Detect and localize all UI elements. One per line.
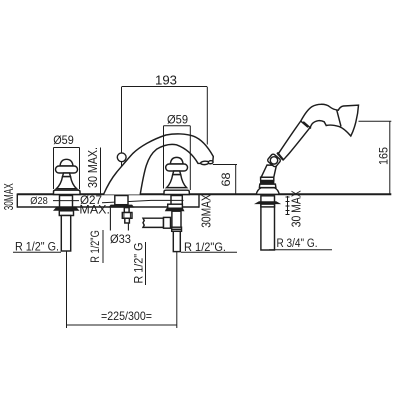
left handle knob [60, 159, 73, 166]
svg-text:30 MAX.: 30 MAX. [86, 147, 100, 188]
left valve shank [60, 196, 73, 208]
svg-text:193: 193 [155, 73, 177, 88]
svg-text:Ø33: Ø33 [110, 234, 131, 246]
spout hole tube sides [109, 206, 111, 231]
svg-text:165: 165 [377, 147, 391, 165]
elbow nut [267, 153, 281, 167]
left valve block [59, 211, 73, 216]
svg-text:68: 68 [219, 172, 233, 186]
165 dimension line [389, 121, 391, 194]
right valve hose [143, 218, 164, 227]
svg-text:R 1/2"G.: R 1/2"G. [184, 240, 226, 254]
deck top line [17, 193, 391, 195]
deck left edge [16, 194, 18, 208]
right handle stem [173, 171, 181, 175]
hand shower shank tube [261, 196, 275, 250]
=225/300= extension lines [66, 251, 68, 328]
underline R 1/2 G right [181, 251, 237, 253]
hand shower washer [261, 204, 275, 207]
right handle knob [170, 157, 183, 164]
left handle bell [56, 177, 76, 189]
right valve flange [168, 204, 183, 208]
svg-text:R 1/2" G: R 1/2" G [132, 243, 146, 284]
underline R 3/4 G [269, 249, 332, 251]
spout mounting bracket [108, 205, 134, 208]
hand shower handle and head [277, 104, 358, 160]
deck right-section edge [198, 195, 200, 208]
right valve body block [172, 211, 181, 228]
hand shower shoulder [259, 184, 276, 188]
Ø59 left extension lines [53, 148, 55, 190]
svg-text:Ø59: Ø59 [167, 112, 188, 126]
svg-text:R 1/2" G.: R 1/2" G. [15, 241, 59, 253]
hand shower dark collar [260, 181, 274, 185]
elbow swivel ball [270, 157, 277, 164]
underline vertical text 2 [145, 242, 147, 285]
right handle bell [167, 175, 187, 188]
head inner ring [337, 110, 341, 126]
=225/300= dimension line [67, 324, 178, 326]
left valve locknut [53, 207, 80, 210]
svg-text:R 3/4" G.: R 3/4" G. [277, 238, 318, 250]
left valve tail tube [61, 216, 70, 252]
svg-text:Ø28: Ø28 [30, 195, 48, 207]
left handle flange [54, 190, 81, 194]
right valve tail tube [173, 231, 180, 251]
right valve collar [172, 227, 182, 231]
68 extension line [213, 164, 237, 166]
hand shower holder cone [261, 165, 276, 177]
30 MAX left-mid underline [100, 148, 102, 194]
underline vertical text 1 [102, 230, 104, 263]
Ø59 right extension lines [163, 126, 165, 189]
svg-text:MAX.: MAX. [79, 204, 110, 216]
lift knob circle on spout [117, 153, 126, 162]
165 extension line [359, 120, 392, 122]
left handle bar [56, 166, 78, 173]
193 extension line right [206, 87, 208, 145]
handle separator lines [300, 121, 308, 128]
underline R 1/2 G left [13, 251, 61, 253]
hand shower locknut [254, 201, 281, 204]
deck bottom line [17, 206, 199, 208]
spout aerator [201, 161, 209, 165]
right handle flange [164, 190, 189, 194]
spout check valve block [122, 213, 132, 219]
left handle stem [63, 173, 71, 177]
svg-text:Ø59: Ø59 [53, 133, 74, 147]
right valve locknut [165, 208, 185, 211]
spout inlet tube [125, 218, 130, 223]
hand shower base bell [256, 188, 279, 195]
svg-text:30 MAX: 30 MAX [289, 190, 304, 227]
spout check valve neck [124, 208, 129, 213]
spout shank below deck [115, 196, 128, 205]
svg-text:R 1/2"G: R 1/2"G [88, 230, 102, 263]
193 dimension line [122, 86, 208, 88]
svg-text:30MAX: 30MAX [1, 183, 16, 210]
68 dimension line [235, 165, 237, 195]
spout body [104, 134, 214, 195]
hand shower collar 2 [261, 177, 274, 180]
Ø59 left dimension line [54, 147, 80, 149]
Ø27 leader line [102, 200, 184, 202]
svg-text:=225/300=: =225/300= [101, 309, 152, 323]
Ø59 right dimension line [164, 125, 191, 127]
right valve shank [171, 196, 182, 205]
Ø28 dimension line [53, 200, 79, 202]
193 extension line left [121, 87, 123, 167]
30 MAX right dim line with ticks [286, 196, 290, 215]
right handle bar [166, 164, 188, 171]
right valve hose nut [164, 217, 171, 228]
svg-text:30MAX: 30MAX [199, 194, 214, 228]
